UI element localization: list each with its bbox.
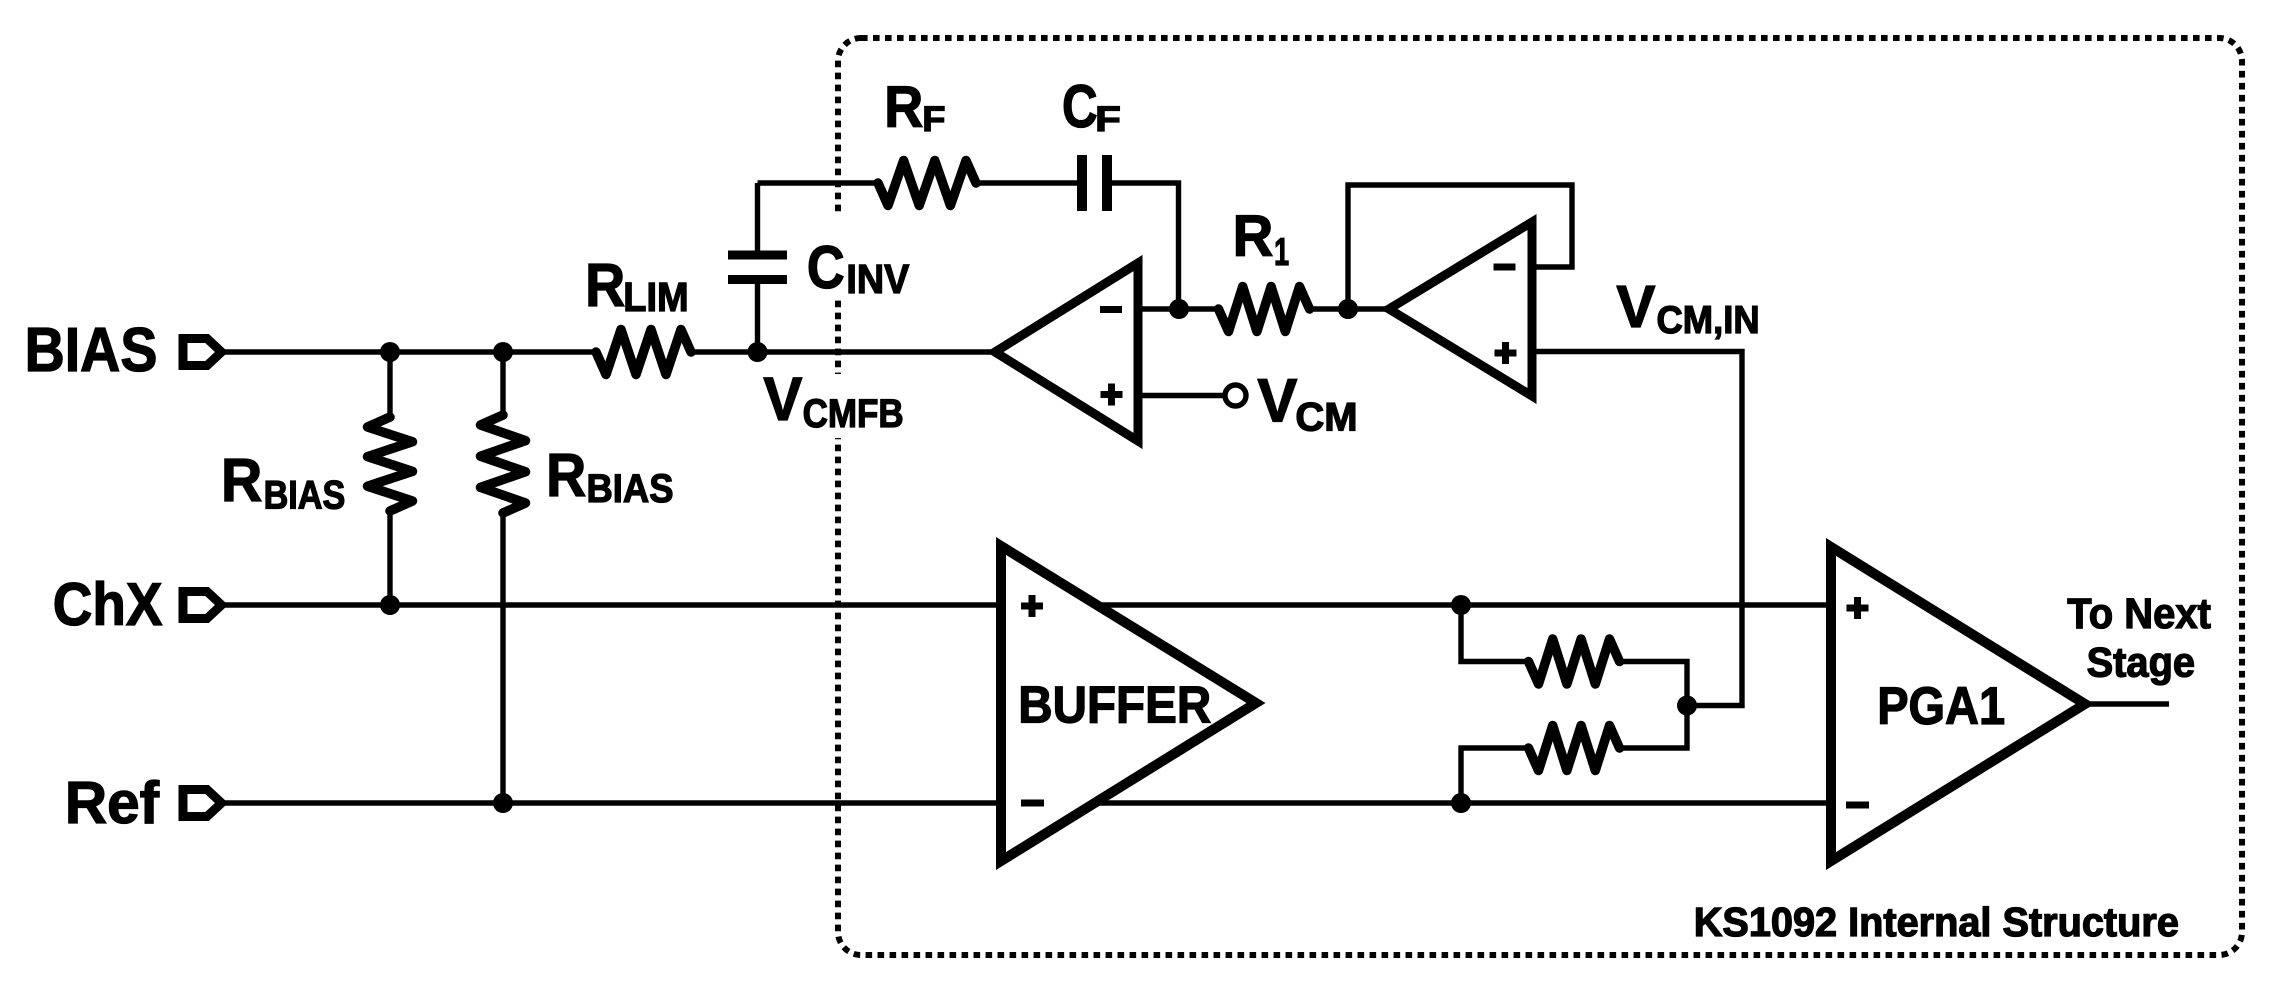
label CF — [1062, 73, 1121, 140]
svg-text:R: R — [546, 441, 586, 509]
wire U1 noninverting input to VCM — [1138, 393, 1225, 398]
svg-text:LIM: LIM — [623, 274, 688, 320]
svg-text:R: R — [884, 75, 923, 140]
svg-text:R: R — [221, 446, 262, 514]
wire feedback (RF to CF) — [976, 180, 1077, 185]
svg-text:BUFFER: BUFFER — [1018, 675, 1211, 733]
svg-text:CM: CM — [1295, 396, 1357, 440]
dashed box KS1092 internal boundary — [838, 38, 2242, 955]
terminal Ref — [183, 790, 222, 817]
svg-text:KS1092 Internal Structure: KS1092 Internal Structure — [1694, 899, 2179, 945]
U1 plus sign — [1101, 384, 1123, 406]
junction dot BIAS/RBIAS1 — [380, 342, 400, 362]
svg-text:Ref: Ref — [65, 771, 160, 836]
label Ref — [65, 771, 160, 836]
svg-text:C: C — [807, 234, 845, 301]
svg-text:V: V — [763, 365, 802, 433]
svg-text:1: 1 — [1274, 231, 1289, 274]
resistor RBIAS (left) — [368, 352, 413, 605]
svg-text:PGA1: PGA1 — [1877, 677, 2005, 736]
BUFFER minus sign — [1021, 800, 1044, 807]
label R1 — [1233, 204, 1290, 274]
svg-text:BIAS: BIAS — [264, 474, 346, 518]
U1 minus sign — [1100, 306, 1122, 313]
label BUFFER — [1018, 675, 1211, 733]
junction dot U1 inverting input — [1169, 299, 1189, 319]
label RBIAS (left) — [221, 446, 345, 518]
wire divider bottom right — [1620, 706, 1687, 749]
junction dot ChX/RBIAS1 — [380, 595, 400, 615]
junction dot Ref/divider — [1451, 793, 1471, 813]
svg-text:C: C — [1062, 73, 1098, 140]
svg-text:V: V — [1616, 273, 1655, 340]
junction dot BIAS/RBIAS2 — [493, 342, 513, 362]
terminal ChX — [183, 592, 222, 619]
PGA1 plus sign — [1847, 597, 1869, 619]
wire divider top right — [1620, 662, 1687, 706]
wire BIAS line (terminal to RLIM) — [222, 349, 597, 354]
white gap behind CINV label — [818, 213, 862, 298]
label node VCM — [1257, 367, 1357, 440]
wire divider top — [1461, 605, 1528, 662]
wire feedback (CF to inverting input) — [1112, 183, 1179, 309]
junction dot U2 output node — [1338, 299, 1358, 319]
terminal BIAS — [183, 339, 222, 366]
svg-text:BIAS: BIAS — [25, 316, 158, 385]
wire BIAS line (RLIM to op-amp U1) — [691, 349, 996, 354]
svg-text:ChX: ChX — [53, 570, 163, 638]
op-amp U1 — [995, 263, 1138, 441]
U2 minus sign — [1494, 264, 1516, 271]
white gap behind VCMFB label — [818, 374, 862, 438]
svg-text:R: R — [1233, 204, 1274, 269]
svg-text:V: V — [1257, 367, 1297, 435]
resistor RBIAS (right) — [481, 352, 526, 803]
wire feedback (CINV to RF) — [758, 180, 879, 185]
wire U2 noninverting input (VCM,IN) — [1534, 352, 1742, 706]
U2 plus sign — [1495, 342, 1517, 364]
junction dot Ref/RBIAS2 — [493, 793, 513, 813]
wire PGA1 output — [2085, 701, 2169, 706]
op-amp U2 — [1389, 222, 1532, 396]
BUFFER plus sign — [1021, 595, 1043, 617]
junction dot divider midpoint VCM,IN — [1677, 696, 1697, 716]
junction dot node VCMFB — [748, 342, 768, 362]
svg-text:CM,IN: CM,IN — [1657, 299, 1760, 342]
amplifier PGA1 — [1831, 547, 2085, 861]
svg-text:INV: INV — [846, 256, 909, 302]
label BIAS — [25, 316, 158, 385]
capacitor CINV — [728, 183, 787, 352]
svg-text:F: F — [922, 100, 945, 139]
node VCM open circle — [1225, 385, 1246, 406]
svg-text:BIAS: BIAS — [587, 467, 674, 511]
svg-text:To Next: To Next — [2067, 590, 2211, 638]
resistor divider bottom — [1529, 726, 1620, 771]
wire U1 inverting input / R1 left — [1138, 306, 1218, 311]
label KS1092 Internal Structure — [1694, 899, 2179, 945]
wire divider bottom — [1461, 748, 1528, 803]
wire R1 to U2 output — [1309, 306, 1389, 311]
label RBIAS (right) — [546, 441, 673, 511]
resistor RF — [878, 161, 976, 206]
resistor divider top — [1529, 639, 1620, 684]
svg-text:CMFB: CMFB — [803, 392, 904, 436]
junction dot ChX/divider — [1451, 595, 1471, 615]
PGA1 minus sign — [1846, 802, 1869, 809]
label CINV — [807, 234, 909, 302]
label node VCMFB — [763, 365, 903, 436]
resistor RLIM — [596, 330, 691, 375]
label PGA1 — [1877, 677, 2005, 736]
svg-text:Stage: Stage — [2087, 639, 2196, 686]
label node VCM,IN — [1616, 273, 1759, 342]
amplifier BUFFER — [1001, 546, 1256, 861]
label To Next Stage — [2067, 590, 2211, 686]
label RLIM — [585, 251, 689, 320]
capacitor CF — [1082, 155, 1107, 211]
label ChX — [53, 570, 163, 638]
label RF — [884, 75, 945, 140]
resistor R1 — [1219, 287, 1310, 332]
svg-text:R: R — [585, 251, 625, 319]
wire U2 feedback loop — [1348, 185, 1572, 309]
svg-text:F: F — [1095, 100, 1121, 139]
wire ChX line — [222, 602, 1832, 607]
wire Ref line — [222, 800, 1832, 805]
